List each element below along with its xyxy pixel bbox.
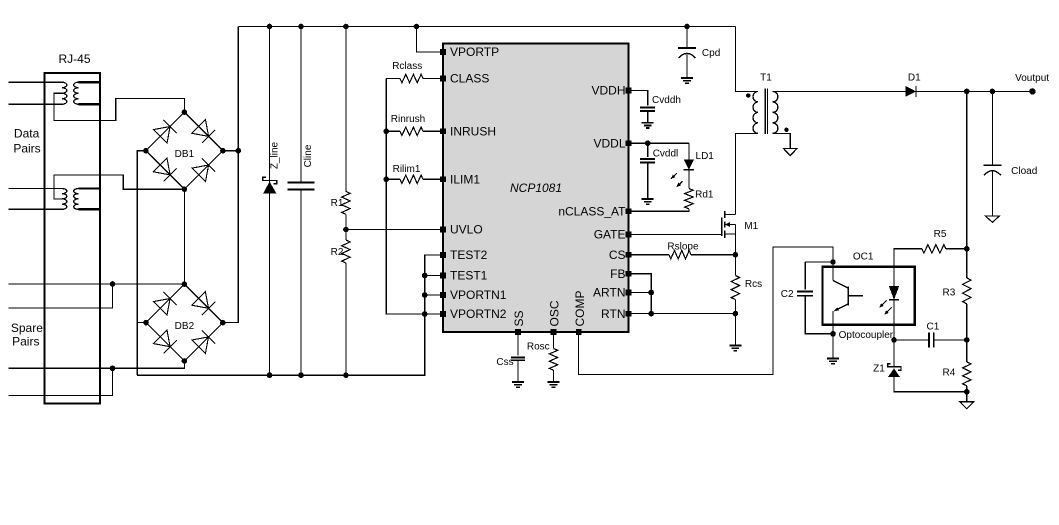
svg-text:VPORTN1: VPORTN1 bbox=[450, 288, 507, 302]
svg-text:R1: R1 bbox=[331, 198, 344, 209]
svg-text:Cload: Cload bbox=[1011, 166, 1037, 177]
svg-text:Pairs: Pairs bbox=[12, 334, 39, 348]
svg-text:COMP: COMP bbox=[573, 291, 587, 327]
svg-text:VDDL: VDDL bbox=[593, 136, 625, 150]
svg-text:GATE: GATE bbox=[594, 228, 626, 242]
svg-text:NCP1081: NCP1081 bbox=[510, 181, 562, 195]
svg-text:C1: C1 bbox=[927, 321, 940, 332]
svg-text:Rslope: Rslope bbox=[667, 242, 699, 253]
svg-text:CS: CS bbox=[609, 248, 626, 262]
svg-text:VPORTN2: VPORTN2 bbox=[450, 307, 507, 321]
svg-text:TEST2: TEST2 bbox=[450, 248, 488, 262]
svg-text:Rinrush: Rinrush bbox=[391, 114, 425, 125]
svg-text:Rd1: Rd1 bbox=[695, 190, 714, 201]
svg-text:Pairs: Pairs bbox=[13, 142, 40, 156]
svg-text:FB: FB bbox=[610, 267, 625, 281]
svg-text:OC1: OC1 bbox=[853, 252, 874, 263]
svg-text:UVLO: UVLO bbox=[450, 223, 483, 237]
svg-text:DB1: DB1 bbox=[175, 149, 195, 160]
svg-text:Z1: Z1 bbox=[873, 363, 885, 374]
svg-text:Cline: Cline bbox=[303, 144, 314, 167]
svg-text:Rosc: Rosc bbox=[527, 341, 550, 352]
svg-text:Spare: Spare bbox=[11, 321, 43, 335]
svg-text:LD1: LD1 bbox=[696, 151, 715, 162]
svg-text:R4: R4 bbox=[943, 367, 956, 378]
svg-text:Cpd: Cpd bbox=[702, 48, 720, 59]
svg-text:D1: D1 bbox=[908, 73, 921, 84]
svg-text:Voutput: Voutput bbox=[1015, 73, 1049, 84]
svg-text:Cvddh: Cvddh bbox=[652, 95, 681, 106]
svg-text:TEST1: TEST1 bbox=[450, 269, 488, 283]
svg-text:RTN: RTN bbox=[601, 307, 625, 321]
svg-text:Z_line: Z_line bbox=[270, 141, 281, 169]
svg-text:ARTN: ARTN bbox=[593, 286, 625, 300]
svg-text:Css: Css bbox=[496, 357, 513, 368]
svg-text:Cvddl: Cvddl bbox=[653, 148, 679, 159]
svg-text:nCLASS_AT: nCLASS_AT bbox=[558, 205, 626, 219]
svg-text:R3: R3 bbox=[943, 287, 956, 298]
svg-text:VDDH: VDDH bbox=[591, 84, 625, 98]
svg-text:M1: M1 bbox=[744, 221, 758, 232]
svg-text:R2: R2 bbox=[331, 247, 344, 258]
svg-text:SS: SS bbox=[512, 310, 526, 326]
svg-text:INRUSH: INRUSH bbox=[450, 125, 496, 139]
svg-text:C2: C2 bbox=[781, 289, 794, 300]
svg-text:Optocoupler: Optocoupler bbox=[839, 330, 894, 341]
svg-text:Data: Data bbox=[14, 126, 40, 140]
svg-text:T1: T1 bbox=[760, 73, 772, 84]
svg-text:R5: R5 bbox=[934, 229, 947, 240]
svg-text:ILIM1: ILIM1 bbox=[450, 173, 480, 187]
svg-text:RJ-45: RJ-45 bbox=[58, 52, 90, 66]
svg-text:Rcs: Rcs bbox=[745, 279, 762, 290]
svg-text:Rilim1: Rilim1 bbox=[393, 164, 421, 175]
svg-text:CLASS: CLASS bbox=[450, 72, 489, 86]
svg-text:DB2: DB2 bbox=[175, 321, 195, 332]
svg-text:Rclass: Rclass bbox=[392, 61, 422, 72]
svg-text:OSC: OSC bbox=[548, 300, 562, 326]
svg-text:VPORTP: VPORTP bbox=[450, 45, 499, 59]
